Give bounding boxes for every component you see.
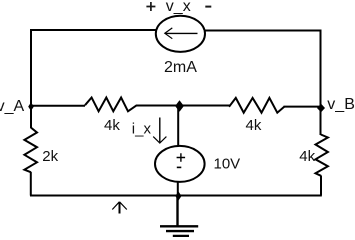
wire top left segment <box>30 29 157 31</box>
svg-text:v_x: v_x <box>166 0 191 15</box>
node dot v_B <box>317 104 325 113</box>
label - (v_x minus) <box>205 6 211 8</box>
wire stem junction to 10V top <box>177 106 179 147</box>
wire right rail upper <box>320 30 322 108</box>
wire left rail above 2k <box>30 106 32 128</box>
svg-text:v_A: v_A <box>0 98 24 115</box>
resistor R 4k right horizontal <box>229 98 284 113</box>
resistor R 4k left horizontal <box>85 98 137 112</box>
wire middle right <box>284 106 322 108</box>
svg-text:2mA: 2mA <box>164 59 197 76</box>
voltage source plus sign <box>177 153 186 162</box>
wire middle center <box>137 105 230 107</box>
ground symbol <box>176 196 178 226</box>
svg-text:2k: 2k <box>42 148 58 165</box>
wire left rail upper <box>30 29 32 107</box>
svg-text:4k: 4k <box>246 117 262 134</box>
current source arrow (points left) <box>166 32 198 34</box>
voltage source V1 10V circle <box>155 146 205 182</box>
resistor R 4k right vertical <box>316 135 328 176</box>
resistor R 2k left vertical <box>24 128 37 173</box>
wire bottom rail <box>30 195 322 197</box>
wire middle left <box>31 105 85 107</box>
wire left rail below 2k <box>30 172 32 196</box>
svg-text:10V: 10V <box>214 155 241 172</box>
node dot v_A <box>28 102 34 111</box>
svg-text:i_x: i_x <box>132 121 152 138</box>
node dot ground junction <box>175 191 181 200</box>
wire 10V bottom to ground node <box>177 182 179 196</box>
current source I1 2mA circle <box>156 16 205 52</box>
reference arrow (up) near bottom wire <box>119 202 121 214</box>
wire top right segment <box>204 30 321 32</box>
svg-text:4k: 4k <box>299 148 315 165</box>
voltage source minus sign <box>177 166 182 168</box>
i_x arrow (points down) <box>159 118 161 143</box>
label + (v_x plus) <box>146 2 155 11</box>
wire right rail below 4k <box>320 176 322 196</box>
wire right rail above 4k <box>320 107 322 136</box>
svg-text:v_B: v_B <box>327 96 355 113</box>
node dot middle junction <box>175 100 184 112</box>
svg-text:4k: 4k <box>104 117 120 134</box>
